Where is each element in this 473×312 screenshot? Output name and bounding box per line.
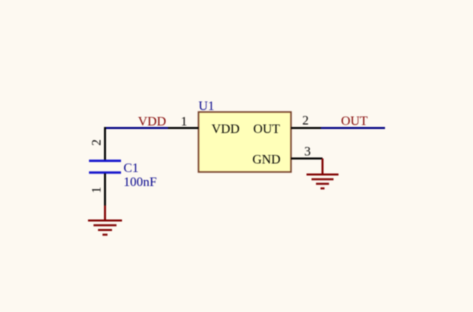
capacitor C1 pin 2 (top lead) — [104, 127, 106, 160]
svg-text:U1: U1 — [199, 98, 215, 113]
ground (left, below C1) — [88, 206, 122, 235]
svg-text:3: 3 — [304, 144, 311, 159]
capacitor C1 pin 1 (bottom lead) — [104, 174, 106, 206]
svg-text:100nF: 100nF — [124, 174, 157, 189]
svg-text:1: 1 — [89, 187, 104, 194]
svg-text:VDD: VDD — [212, 121, 240, 136]
svg-text:OUT: OUT — [341, 113, 368, 128]
wire: OUT net — [321, 127, 385, 129]
svg-text:GND: GND — [252, 152, 280, 167]
pin 3 (GND) of U1 — [291, 158, 323, 160]
ground (right, on U1 pin 3) — [307, 159, 339, 189]
svg-text:OUT: OUT — [253, 121, 280, 136]
svg-text:2: 2 — [89, 139, 104, 146]
pin 2 (OUT) of U1 — [291, 127, 321, 129]
svg-text:C1: C1 — [124, 160, 139, 175]
IC U1 body — [199, 112, 292, 172]
svg-text:VDD: VDD — [138, 114, 166, 129]
svg-text:1: 1 — [181, 114, 188, 129]
capacitor C1 plates — [89, 160, 121, 162]
pin 1 (VDD) of U1 — [168, 127, 199, 129]
wire: VDD net from capacitor C1 to U1 pin 1 — [104, 127, 168, 129]
svg-text:2: 2 — [302, 113, 309, 128]
